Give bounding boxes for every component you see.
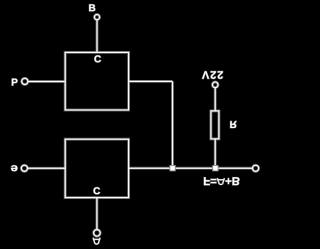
label A of F=A+B (flipped vertically) [217, 178, 225, 185]
soft halo layer for wires and outlines [21, 15, 258, 237]
wire U2 bottom pin to A terminal (halo) [95, 198, 98, 230]
wire P terminal to U1 left pin (halo) [28, 80, 65, 83]
wire B terminal to U1 top pin [96, 20, 98, 53]
label e (bottom-left input, rotated 180) [11, 165, 17, 171]
wire resistor R to node J2 (halo) [214, 139, 217, 166]
terminal circle P [22, 78, 28, 84]
terminal circle 22V (halo) [212, 82, 218, 88]
terminal circle output F [253, 165, 259, 171]
wire 22V terminal to resistor R (halo) [214, 88, 217, 111]
label F= (output label part, flipped vertically) [204, 177, 216, 185]
component box U1 (top switch block) [65, 52, 128, 110]
wire corner down to node J1 [172, 81, 174, 166]
bright core layer for wires and outlines [21, 15, 258, 237]
label +B (output label part, flipped vertically) [226, 177, 240, 185]
label 22V (supply, rotated 180) [202, 71, 223, 79]
wire e terminal to U2 left pin (halo) [28, 167, 65, 170]
wire U1 right pin to corner [129, 80, 173, 82]
wire B terminal to U1 top pin (halo) [96, 20, 99, 53]
label R (resistor, flipped vertically) [230, 121, 236, 128]
component box U2 (bottom switch block) [65, 139, 128, 197]
terminal circle P (halo) [22, 78, 28, 84]
terminal circle B [94, 15, 99, 20]
resistor R (halo) [211, 111, 219, 139]
label C (top box) [94, 55, 101, 62]
wire 22V terminal to resistor R [214, 88, 216, 111]
label B (top terminal) [89, 4, 95, 11]
terminal circle 22V [212, 82, 218, 88]
label P (left input) [12, 79, 18, 86]
node J1 junction [170, 166, 175, 171]
wire output rail U2 right pin to output terminal [129, 167, 253, 169]
wire resistor R to node J2 [214, 139, 216, 166]
wire U1 right pin to corner (halo) [129, 80, 173, 83]
terminal circle A (halo) [94, 230, 101, 237]
label A (bottom terminal, flipped vertically) [93, 238, 101, 245]
component box U1 (top switch block) (halo) [65, 52, 128, 110]
terminal circle e (halo) [21, 165, 27, 171]
wire P terminal to U1 left pin [28, 81, 65, 83]
resistor R [211, 111, 219, 139]
wire e terminal to U2 left pin [28, 167, 65, 169]
terminal circle A [94, 230, 101, 237]
terminal circle B (halo) [94, 15, 99, 20]
terminal circle output F (halo) [253, 165, 259, 171]
wire corner down to node J1 (halo) [171, 81, 174, 166]
label C (bottom box) [94, 187, 101, 194]
component box U2 (bottom switch block) (halo) [65, 139, 128, 197]
wire U2 bottom pin to A terminal [96, 198, 98, 230]
wire output rail U2 right pin to output terminal (halo) [129, 167, 253, 170]
node J2 junction [213, 166, 218, 171]
terminal circle e [21, 165, 27, 171]
